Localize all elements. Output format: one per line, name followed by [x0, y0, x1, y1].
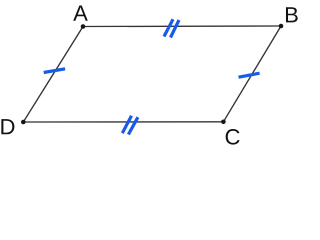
label A — [73, 6, 88, 21]
label C — [226, 129, 240, 145]
double tick on AB stroke 2 — [171, 20, 180, 38]
wire side BC — [223, 26, 281, 122]
double tick on DC stroke 1 — [122, 116, 131, 133]
double tick on DC stroke 2 — [128, 117, 138, 134]
wire side DA — [23, 27, 83, 123]
node D vertex dot — [21, 120, 26, 125]
label B — [286, 7, 298, 22]
node A vertex dot — [81, 24, 86, 29]
node B vertex dot — [279, 24, 284, 29]
wire side AB — [83, 25, 281, 28]
double tick on AB stroke 1 — [164, 19, 173, 36]
wire side CD — [23, 121, 223, 123]
single tick on BC — [239, 73, 260, 77]
label D — [1, 119, 14, 134]
node C vertex dot — [221, 120, 226, 125]
single tick on AD — [44, 69, 65, 73]
